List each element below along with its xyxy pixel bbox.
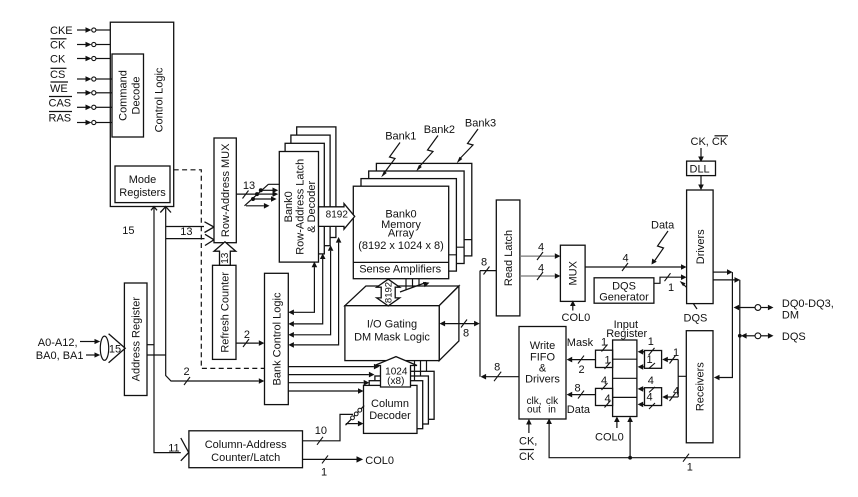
svg-text:8: 8 [494,362,500,374]
svg-text:Row-Address Latch: Row-Address Latch [295,159,307,255]
svg-text:2: 2 [244,329,250,341]
svg-text:Drivers: Drivers [695,229,707,264]
svg-text:Register: Register [606,328,647,340]
svg-text:Bank3: Bank3 [465,118,496,130]
svg-text:8: 8 [481,257,487,269]
svg-text:1: 1 [668,282,674,294]
svg-text:Data: Data [567,404,591,416]
svg-text:Bank2: Bank2 [424,124,455,136]
svg-text:8: 8 [463,328,469,340]
svg-text:Address Register: Address Register [131,297,143,382]
svg-text:13: 13 [243,180,255,192]
svg-text:Decoder: Decoder [369,410,411,422]
svg-text:Row-Address MUX: Row-Address MUX [220,143,232,237]
svg-text:CK,: CK, [519,436,537,448]
svg-text:COL0: COL0 [595,432,624,444]
svg-text:A0-A12,: A0-A12, [38,337,78,349]
svg-text:WE: WE [50,83,68,95]
svg-text:CK: CK [50,54,66,66]
svg-text:4: 4 [538,242,544,254]
svg-text:4: 4 [646,392,652,404]
svg-text:RAS: RAS [49,112,72,124]
svg-text:BA0, BA1: BA0, BA1 [36,350,84,362]
svg-text:Bank0: Bank0 [283,191,295,222]
svg-text:CKE: CKE [50,25,73,37]
svg-text:Array: Array [388,228,415,240]
svg-text:4: 4 [538,263,544,275]
svg-text:13: 13 [180,226,192,238]
svg-text:2: 2 [183,366,189,378]
svg-text:Receivers: Receivers [695,362,707,411]
svg-text:COL0: COL0 [365,455,394,467]
svg-text:8192: 8192 [326,210,349,221]
svg-text:Control Logic: Control Logic [154,67,166,132]
svg-text:COL0: COL0 [562,312,591,324]
svg-text:15: 15 [109,344,121,356]
svg-text:Data: Data [651,220,675,232]
svg-text:4: 4 [673,386,679,398]
svg-text:Registers: Registers [119,187,166,199]
svg-text:1: 1 [321,467,327,479]
svg-text:4: 4 [622,253,628,265]
svg-text:CK: CK [50,40,66,52]
svg-text:15: 15 [122,225,134,237]
svg-text:in: in [548,405,556,416]
svg-text:Generator: Generator [599,291,649,303]
svg-text:Command: Command [118,70,130,121]
svg-text:Refresh Counter: Refresh Counter [219,272,231,353]
svg-text:(x8): (x8) [387,376,404,387]
svg-text:DQS: DQS [782,331,806,343]
svg-text:Read Latch: Read Latch [503,230,515,286]
svg-text:10: 10 [315,425,327,437]
svg-text:11: 11 [168,443,179,455]
svg-text:I/O Gating: I/O Gating [367,319,417,331]
svg-text:1: 1 [673,347,679,359]
svg-text:DM Mask Logic: DM Mask Logic [354,332,430,344]
svg-text:(8192 x 1024 x 8): (8192 x 1024 x 8) [358,240,444,252]
svg-text:DQ0-DQ3,: DQ0-DQ3, [782,298,834,310]
svg-text:Mode: Mode [129,174,157,186]
svg-text:DQS: DQS [684,313,708,325]
svg-text:DM: DM [782,309,799,321]
svg-text:2: 2 [578,364,584,376]
svg-text:Mask: Mask [567,337,594,349]
svg-text:out: out [527,405,541,416]
svg-text:Column: Column [371,398,409,410]
svg-text:1: 1 [648,336,654,348]
svg-text:8192: 8192 [384,282,395,303]
svg-text:Counter/Latch: Counter/Latch [211,452,280,464]
svg-text:1: 1 [646,354,652,366]
svg-text:Bank1: Bank1 [385,131,416,143]
svg-text:Drivers: Drivers [525,373,560,385]
svg-text:Column-Address: Column-Address [205,439,287,451]
svg-text:CAS: CAS [49,97,72,109]
svg-text:4: 4 [648,375,654,387]
svg-text:MUX: MUX [568,260,580,285]
svg-text:Sense Amplifiers: Sense Amplifiers [359,263,441,275]
svg-text:Bank Control Logic: Bank Control Logic [271,292,283,385]
svg-text:CK, CK: CK, CK [691,136,728,148]
svg-text:DLL: DLL [690,163,710,175]
svg-text:& Decoder: & Decoder [306,180,318,232]
svg-text:8: 8 [575,383,581,395]
svg-text:13: 13 [220,252,231,264]
svg-text:1: 1 [687,462,693,474]
svg-text:Decode: Decode [131,77,143,115]
svg-text:Write: Write [530,340,555,352]
svg-text:CS: CS [50,69,65,81]
svg-text:CK: CK [519,451,535,463]
